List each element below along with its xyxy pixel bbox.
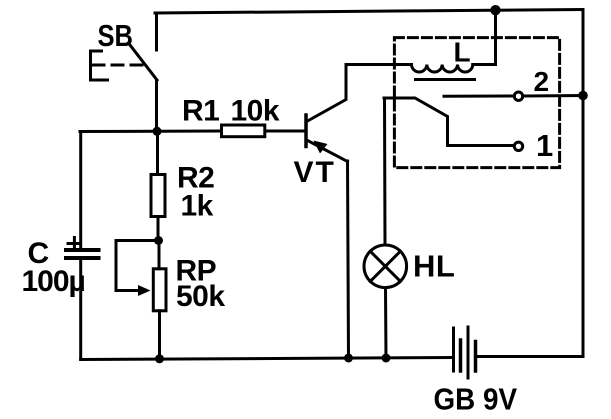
relay coil L <box>412 65 473 73</box>
lamp HL cross <box>370 251 400 281</box>
wire bottom rail left segment <box>81 358 454 360</box>
svg-text:SB: SB <box>98 18 134 53</box>
wire lamp to bottom rail <box>384 289 388 359</box>
battery GB plate short 1 <box>459 340 463 371</box>
svg-text:100µ: 100µ <box>22 265 85 298</box>
relay contact 2 wire left <box>444 95 513 98</box>
pushbutton SB actuator dashed link <box>93 64 145 67</box>
wire bottom rail right segment <box>477 355 584 358</box>
svg-text:50k: 50k <box>176 280 225 313</box>
svg-text:VT: VT <box>294 156 336 189</box>
battery GB plate long 1 <box>452 328 455 371</box>
wire junction to R2 <box>156 132 159 175</box>
pushbutton SB actuator bracket <box>91 51 108 80</box>
svg-text:HL: HL <box>413 249 455 284</box>
svg-text:1k: 1k <box>181 190 214 223</box>
capacitor C <box>66 250 99 258</box>
potentiometer RP wiper arrow <box>138 285 151 296</box>
junction node RP bottom rail <box>155 354 164 363</box>
lamp HL circle <box>364 245 407 288</box>
svg-text:2: 2 <box>534 66 550 97</box>
transistor VT emitter <box>308 141 348 162</box>
battery GB plate long 2 <box>467 327 470 378</box>
wire RP to bottom rail <box>158 311 161 359</box>
wire armature pivot to lamp <box>383 98 387 245</box>
transistor VT base bar <box>304 115 308 147</box>
pushbutton SB lever <box>130 45 157 80</box>
svg-text:R1: R1 <box>182 95 219 128</box>
wire junction to RP <box>158 241 161 269</box>
wire right rail <box>582 10 585 357</box>
transistor VT emitter arrow <box>314 141 328 154</box>
wire left rail upper <box>79 132 82 251</box>
wire R1 to VT base <box>267 130 305 133</box>
svg-text:1: 1 <box>536 128 553 163</box>
potentiometer RP body <box>153 269 166 311</box>
wire R2 to junction <box>157 217 160 241</box>
wire left rail lower <box>79 258 82 360</box>
junction node lamp bottom rail <box>382 354 391 363</box>
relay contact 2 circle <box>514 92 522 100</box>
battery GB plate short 2 <box>474 342 478 372</box>
pushbutton SB fixed contact wire <box>155 13 158 50</box>
resistor R2 <box>151 175 165 217</box>
capacitor C polarity plus <box>68 238 80 249</box>
svg-text:GB 9V: GB 9V <box>434 383 518 417</box>
relay coil core bar <box>416 78 475 81</box>
resistor R1 <box>222 125 265 137</box>
wire coil right to top rail <box>473 10 496 64</box>
junction node emitter bottom rail <box>344 354 353 363</box>
relay armature <box>384 98 513 146</box>
wire collector to relay coil <box>346 63 412 66</box>
svg-text:10k: 10k <box>231 95 280 128</box>
relay contact 2 wire right <box>524 94 583 98</box>
junction node top rail <box>490 5 500 15</box>
svg-text:L: L <box>454 37 471 68</box>
junction node right rail contact 2 <box>578 91 588 101</box>
transistor VT collector <box>308 65 347 122</box>
wire main horizontal (left rail to R1) <box>80 130 220 134</box>
junction node SB/R1/R2 <box>153 127 162 136</box>
potentiometer RP wiper bracket <box>116 241 159 291</box>
relay contact 1 circle <box>514 142 522 150</box>
relay dashed enclosure box <box>394 38 559 168</box>
wire VT emitter down to bottom rail <box>348 161 349 358</box>
junction node R2/RP wiper <box>154 236 163 245</box>
wire top rail <box>155 10 583 14</box>
